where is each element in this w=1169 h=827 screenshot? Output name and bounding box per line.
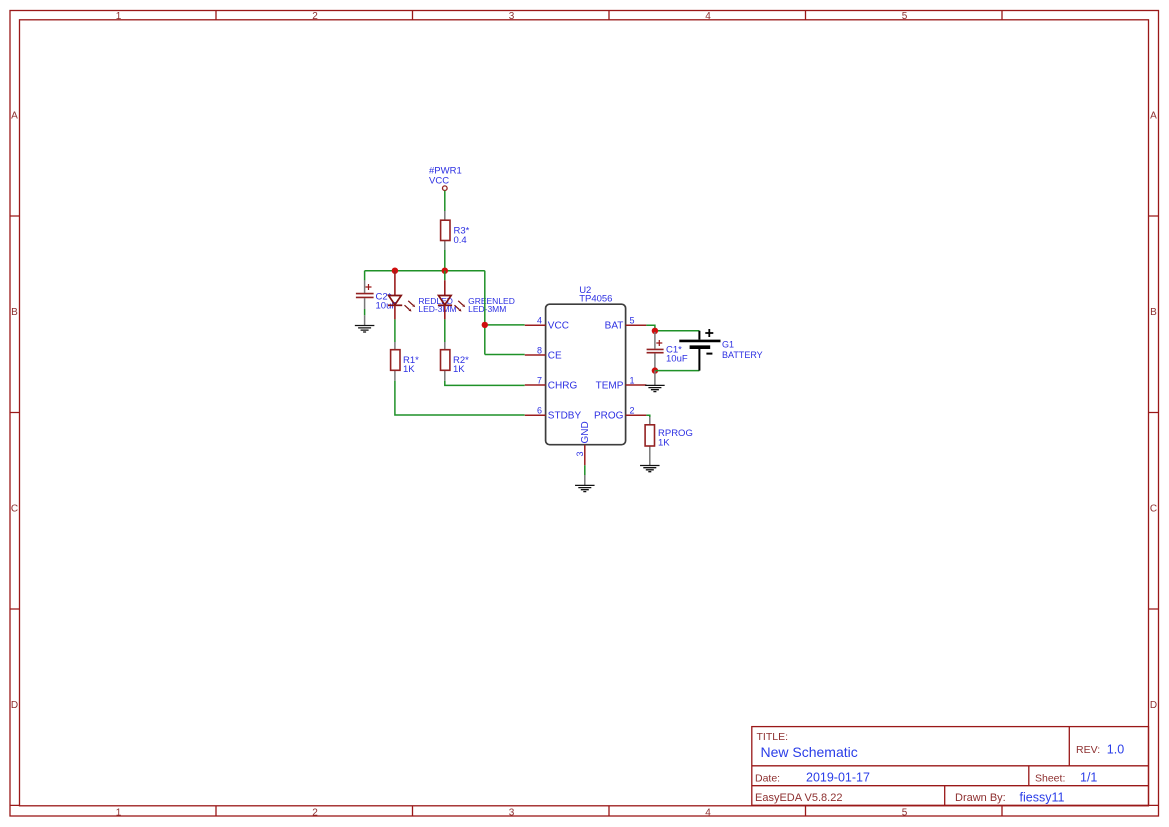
svg-text:REV:: REV: bbox=[1076, 744, 1100, 756]
resistor R3 bbox=[441, 211, 470, 250]
svg-text:fiessy11: fiessy11 bbox=[1020, 791, 1065, 805]
resistor R2 bbox=[441, 342, 470, 381]
resistor RPROG bbox=[645, 417, 693, 465]
svg-text:Sheet:: Sheet: bbox=[1035, 773, 1065, 785]
svg-text:3: 3 bbox=[509, 807, 515, 818]
battery G1 bbox=[679, 329, 762, 371]
ground under RPROG bbox=[640, 466, 660, 472]
svg-text:6: 6 bbox=[537, 406, 542, 416]
svg-text:VCC: VCC bbox=[429, 176, 449, 187]
pin 5 BAT bbox=[626, 324, 647, 326]
svg-text:8: 8 bbox=[537, 346, 542, 356]
wire rail down to VCC/CE bbox=[484, 271, 486, 355]
ground under C2 bbox=[355, 326, 375, 333]
junction node at C1 bottom bbox=[652, 367, 658, 373]
svg-text:B: B bbox=[11, 307, 18, 318]
svg-text:5: 5 bbox=[902, 11, 908, 22]
svg-text:1: 1 bbox=[116, 807, 122, 818]
LED REDLED (LED-3MM) bbox=[388, 271, 457, 320]
svg-text:0.4: 0.4 bbox=[454, 235, 467, 246]
svg-text:LED-3MM: LED-3MM bbox=[468, 304, 506, 314]
svg-text:5: 5 bbox=[902, 807, 908, 818]
svg-text:4: 4 bbox=[705, 11, 711, 22]
wire GREENLED to R2 bbox=[444, 319, 446, 342]
svg-text:4: 4 bbox=[705, 807, 711, 818]
svg-text:7: 7 bbox=[537, 376, 542, 386]
svg-text:B: B bbox=[1150, 307, 1157, 318]
pin 3 GND bbox=[584, 445, 586, 466]
wire R2 to CHRG bbox=[445, 381, 525, 386]
svg-text:1: 1 bbox=[116, 11, 122, 22]
svg-text:5: 5 bbox=[630, 316, 635, 326]
capacitor C1 bbox=[647, 332, 688, 365]
svg-text:G1: G1 bbox=[722, 339, 734, 349]
wire BAT to battery bbox=[646, 325, 699, 331]
svg-text:1K: 1K bbox=[403, 364, 415, 375]
svg-text:EasyEDA V5.8.22: EasyEDA V5.8.22 bbox=[755, 792, 842, 804]
svg-text:D: D bbox=[11, 700, 18, 711]
wire C2 to ground bbox=[364, 298, 366, 309]
svg-text:1K: 1K bbox=[658, 437, 670, 448]
svg-text:A: A bbox=[1150, 111, 1157, 122]
wire top horizontal rail bbox=[365, 270, 485, 272]
pin 2 PROG bbox=[626, 414, 647, 416]
svg-text:2: 2 bbox=[312, 807, 318, 818]
ground under C1 / TEMP bbox=[645, 385, 665, 391]
svg-text:2019-01-17: 2019-01-17 bbox=[806, 771, 870, 785]
svg-text:PROG: PROG bbox=[594, 411, 624, 422]
svg-text:STDBY: STDBY bbox=[548, 411, 582, 422]
ground under pin 3 bbox=[575, 485, 595, 491]
wire R3 to node bbox=[444, 250, 446, 271]
wire to pin CE bbox=[485, 354, 525, 356]
wire REDLED to R1 bbox=[394, 319, 396, 342]
power flag #PWR1 VCC bbox=[429, 166, 462, 191]
pin 8 CE bbox=[525, 354, 546, 356]
junction node at R3/REDLED bbox=[392, 268, 398, 274]
wire VCC to R3 bbox=[444, 191, 446, 211]
capacitor C2 bbox=[356, 280, 397, 311]
pin 4 VCC bbox=[525, 324, 546, 326]
IC U2 TP4056 bbox=[525, 285, 647, 465]
svg-text:C: C bbox=[11, 504, 18, 515]
svg-text:10uF: 10uF bbox=[666, 354, 688, 365]
schematic bbox=[355, 166, 763, 492]
svg-text:GND: GND bbox=[580, 421, 591, 443]
svg-text:C: C bbox=[1150, 504, 1157, 515]
wire to pin VCC bbox=[485, 324, 525, 326]
wire R1 to STDBY bbox=[395, 381, 525, 415]
svg-text:2: 2 bbox=[630, 406, 635, 416]
svg-text:TEMP: TEMP bbox=[596, 381, 624, 392]
wire C1 to ground bbox=[654, 371, 656, 386]
wire GND pin to ground bbox=[584, 465, 586, 475]
svg-text:BAT: BAT bbox=[605, 321, 624, 332]
pin 1 TEMP bbox=[626, 384, 647, 386]
svg-text:1.0: 1.0 bbox=[1107, 743, 1124, 757]
svg-text:A: A bbox=[11, 111, 18, 122]
svg-text:Date:: Date: bbox=[755, 773, 780, 785]
svg-text:4: 4 bbox=[537, 316, 542, 326]
wire rail down to C2 bbox=[364, 271, 366, 281]
svg-text:VCC: VCC bbox=[548, 321, 569, 332]
resistor R1 bbox=[391, 342, 420, 381]
LED GREENLED (LED-3MM) bbox=[438, 271, 515, 320]
wire battery bottom bbox=[655, 370, 700, 372]
svg-text:CHRG: CHRG bbox=[548, 381, 578, 392]
svg-text:CE: CE bbox=[548, 351, 562, 362]
svg-text:D: D bbox=[1150, 700, 1157, 711]
svg-text:1/1: 1/1 bbox=[1080, 771, 1097, 785]
svg-text:New Schematic: New Schematic bbox=[761, 744, 858, 760]
pin 6 STDBY bbox=[525, 414, 546, 416]
svg-text:3: 3 bbox=[575, 451, 585, 456]
svg-text:3: 3 bbox=[509, 11, 515, 22]
pin 7 CHRG bbox=[525, 384, 546, 386]
svg-text:TP4056: TP4056 bbox=[579, 294, 612, 305]
junction node at R3/GREENLED bbox=[442, 268, 448, 274]
junction node at VCC bbox=[482, 322, 488, 328]
svg-text:Drawn By:: Drawn By: bbox=[955, 792, 1006, 804]
svg-text:TITLE:: TITLE: bbox=[757, 731, 789, 743]
wire PROG to RPROG bbox=[646, 415, 649, 417]
svg-text:1K: 1K bbox=[453, 364, 465, 375]
svg-text:BATTERY: BATTERY bbox=[722, 350, 763, 360]
junction node at C1 top bbox=[652, 328, 658, 334]
svg-text:1: 1 bbox=[630, 376, 635, 386]
title block bbox=[752, 727, 1149, 806]
svg-text:2: 2 bbox=[312, 11, 318, 22]
